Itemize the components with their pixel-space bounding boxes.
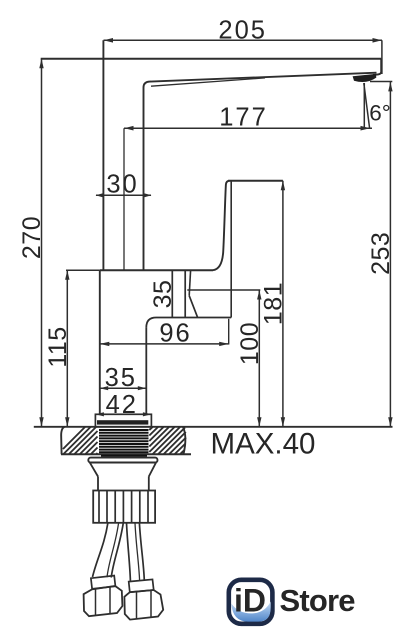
cartridge strip right edge — [184, 270, 186, 317]
svg-text:270: 270 — [18, 216, 46, 259]
extension line right of 205 — [381, 40, 383, 74]
deck left edge — [61, 427, 64, 454]
body bottom edge with round corner — [146, 318, 231, 328]
cone left — [90, 463, 98, 477]
threaded shank — [99, 430, 149, 456]
dim 253 line — [388, 82, 392, 427]
svg-text:181: 181 — [259, 282, 287, 325]
svg-text:253: 253 — [367, 232, 395, 275]
dim 42 line (flange) — [95, 412, 151, 416]
deck right edge — [183, 427, 185, 454]
right hex nut — [124, 590, 163, 620]
spout bottom edge — [151, 73, 377, 82]
svg-text:177: 177 — [219, 103, 268, 131]
dim 270 line — [39, 59, 43, 427]
riser pipe right edge merging into spout bottom — [144, 82, 152, 271]
left hex nut — [84, 586, 123, 616]
cone right — [149, 463, 156, 477]
left hose — [93, 523, 124, 578]
aerator — [353, 74, 377, 82]
right ferrule — [129, 579, 154, 592]
spout bottom inner line — [151, 78, 265, 86]
logo iD rounded square — [229, 580, 273, 624]
lever top edge — [228, 180, 283, 182]
svg-text:Store: Store — [280, 583, 356, 618]
svg-text:MAX.40: MAX.40 — [211, 427, 316, 460]
96 extension line — [228, 319, 230, 345]
svg-text:100: 100 — [236, 322, 264, 365]
svg-text:96: 96 — [159, 319, 191, 347]
lever outer curve — [213, 181, 230, 270]
dim 35 line (pedestal) — [100, 386, 147, 390]
dim 253 extension line — [370, 81, 392, 83]
top reference line (spout top edge + 270 extension) — [41, 58, 382, 60]
deck top line — [34, 426, 393, 428]
flange outline — [95, 414, 151, 427]
dim 100 line — [257, 290, 261, 427]
svg-text:115: 115 — [44, 326, 72, 367]
svg-text:35: 35 — [149, 280, 177, 309]
neck left — [97, 477, 99, 491]
diagonal cut — [189, 296, 197, 318]
svg-text:35: 35 — [105, 364, 137, 392]
sliver edge — [189, 270, 190, 296]
right hose — [127, 523, 145, 581]
body top edge — [100, 269, 213, 271]
dim 177 line — [124, 126, 372, 131]
svg-text:30: 30 — [106, 170, 138, 198]
svg-text:205: 205 — [218, 17, 267, 45]
dim 96 line — [100, 342, 229, 346]
dim 115 line — [65, 270, 69, 427]
lever front inner edge — [230, 181, 232, 318]
angle line tilted (6 deg) — [364, 83, 370, 128]
spout tip front edge — [373, 59, 381, 75]
deck hatch right — [149, 427, 186, 454]
dim 205 line — [104, 38, 383, 43]
svg-text:iD: iD — [234, 583, 266, 619]
extension line for 115 top — [66, 269, 100, 271]
left ferrule — [91, 576, 116, 589]
deck hatch left — [63, 427, 98, 454]
cartridge strip left edge — [171, 270, 173, 317]
pedestal right edge — [145, 327, 147, 414]
faucet back edge — [99, 270, 101, 414]
neck right — [148, 477, 150, 491]
riser pipe left edge — [102, 40, 104, 270]
body underside line / 100 extension — [187, 289, 260, 291]
under-deck washer — [88, 458, 157, 463]
svg-text:6°: 6° — [369, 100, 391, 125]
deck bottom line — [61, 453, 191, 455]
ribbed nut — [93, 491, 155, 523]
flange dark band — [97, 420, 148, 424]
angle line vertical (6 deg) — [363, 83, 365, 128]
dim 30 line — [96, 193, 152, 197]
riser centerline extension — [123, 128, 125, 270]
dim 181 line — [281, 181, 285, 427]
logo crescent — [231, 602, 270, 622]
